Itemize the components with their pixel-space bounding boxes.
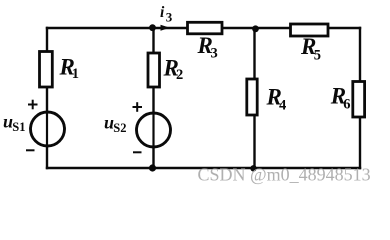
svg-text:4: 4 (279, 98, 286, 114)
svg-text:3: 3 (211, 46, 218, 62)
svg-text:S2: S2 (113, 121, 126, 135)
svg-text:3: 3 (166, 10, 173, 25)
svg-text:5: 5 (314, 48, 321, 64)
svg-text:i: i (160, 4, 165, 21)
svg-text:S1: S1 (12, 120, 25, 134)
svg-text:6: 6 (343, 96, 350, 112)
svg-text:2: 2 (176, 67, 183, 83)
svg-text:CSDN @m0_48948513: CSDN @m0_48948513 (198, 165, 371, 185)
svg-text:1: 1 (72, 66, 79, 82)
